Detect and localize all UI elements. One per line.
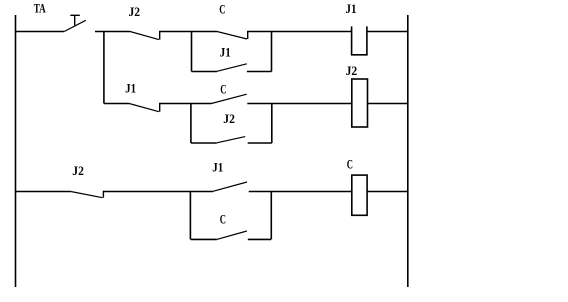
wire rung2 start to J1 contact: [104, 103, 129, 105]
svg-text:J2: J2: [223, 112, 235, 126]
wire rung1 TA to J2 contact: [95, 31, 130, 33]
wire box1 bottom left lead: [192, 71, 218, 73]
wire box1 bottom right lead: [247, 71, 272, 73]
contact J1 blade (parallel box1): [217, 64, 247, 72]
pushbutton TA actuator stem: [74, 15, 76, 25]
contact J2 blade (rung1): [130, 32, 159, 40]
svg-text:C: C: [220, 83, 226, 97]
svg-text:J1: J1: [346, 2, 357, 16]
wire rung1 coil J1 to right rail: [367, 31, 408, 33]
wire rung3 left rail to J2 contact: [16, 191, 71, 193]
node branch box1 left vertical: [191, 32, 193, 72]
right power rail: [407, 15, 409, 287]
pushbutton TA blade: [64, 20, 86, 31]
contact J2 blade (parallel box2): [217, 137, 245, 143]
svg-text:J2: J2: [129, 5, 141, 19]
wire rung3 J2 to J1 contact: [103, 191, 213, 193]
svg-text:C: C: [347, 158, 353, 172]
svg-text:C: C: [219, 3, 225, 17]
contact C blade (rung2): [211, 94, 246, 103]
contact J2 stub (rung3): [102, 191, 104, 198]
node branch box2 right vertical: [271, 104, 273, 144]
coil C: [352, 175, 367, 215]
wire rung2 J1 to C contact: [160, 103, 212, 105]
wire rung2 coil J2 to right rail: [368, 103, 408, 105]
wire rung3 J1 contact to coil C: [249, 191, 352, 193]
svg-text:J1: J1: [212, 160, 223, 174]
wire box2 bottom left lead: [191, 142, 217, 144]
left power rail: [15, 15, 17, 287]
contact J1 stub (rung2): [159, 103, 161, 112]
wire junction drop to rung2: [103, 32, 105, 104]
coil J2: [352, 79, 368, 127]
node branch box1 right vertical: [271, 32, 273, 72]
contact C blade (parallel box3): [217, 231, 247, 239]
wire box3 bottom right lead: [248, 238, 271, 240]
node branch box3 right vertical: [270, 192, 272, 240]
svg-text:J1: J1: [220, 45, 231, 59]
contact J2 blade (rung3): [71, 192, 103, 198]
wire rung1 C contact to coil J1: [248, 31, 352, 33]
contact J2 stub (rung1): [159, 31, 161, 40]
contact J1 blade (rung2): [129, 104, 159, 112]
svg-text:C: C: [220, 212, 226, 226]
svg-text:TA: TA: [34, 2, 47, 16]
coil J1: [352, 26, 367, 54]
wire rung2 C contact to coil J2: [247, 103, 351, 105]
wire rung1 J2 to C contact: [160, 31, 217, 33]
contact C stub (rung1): [247, 31, 249, 39]
svg-text:J1: J1: [125, 82, 136, 96]
svg-text:J2: J2: [346, 64, 358, 78]
wire box3 bottom left lead: [191, 238, 217, 240]
contact C blade (rung1): [217, 32, 247, 40]
node branch box3 left vertical: [189, 192, 191, 240]
svg-text:J2: J2: [72, 164, 84, 178]
contact J1 blade (rung3): [213, 182, 247, 191]
wire rung3 coil C to right rail: [367, 191, 408, 193]
node branch box2 left vertical: [190, 104, 192, 144]
wire box2 bottom right lead: [248, 142, 272, 144]
wire rung1 left rail to TA: [16, 31, 65, 33]
pushbutton TA actuator cap: [70, 14, 80, 16]
